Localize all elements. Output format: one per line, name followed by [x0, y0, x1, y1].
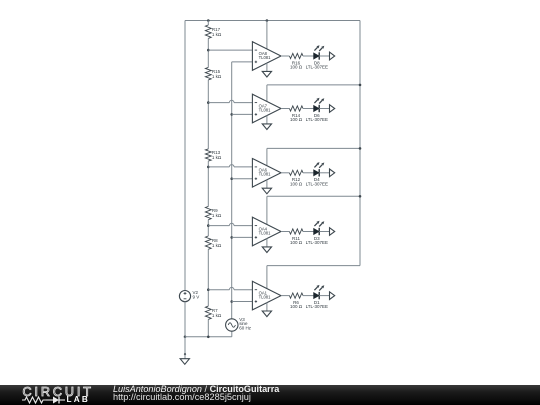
wire	[319, 295, 329, 297]
svg-text:60 Hz: 60 Hz	[239, 326, 252, 331]
wire	[207, 50, 209, 67]
svg-text:TL081: TL081	[259, 172, 272, 177]
resistor R12 100 &#937;	[289, 170, 303, 186]
wire OA4 V- pin to ground	[266, 239, 268, 247]
resistor R15 1 k&#937;	[205, 67, 222, 80]
op-amp OA6 TL081	[252, 159, 281, 188]
wire	[207, 167, 209, 207]
svg-text:LTL-307EE: LTL-307EE	[306, 181, 328, 186]
svg-text:100 Ω: 100 Ω	[290, 240, 303, 245]
wire	[303, 108, 314, 110]
node signal bus tap to OA6 non-inverting input	[230, 177, 233, 180]
resistor R13 1 k&#937;	[205, 149, 222, 161]
node divider tap to OA7 inverting input	[207, 101, 210, 104]
node top rail / OA8 supply junction	[266, 19, 269, 22]
wire OA7 V- pin to ground	[266, 116, 268, 124]
wire OA6 output	[281, 172, 289, 174]
LED D8 LTL-307EE	[306, 45, 328, 69]
resistor R8 1 k&#937;	[205, 236, 222, 249]
wire	[207, 38, 209, 50]
node divider tap to OA4 inverting input	[207, 224, 210, 227]
ground (main)	[180, 359, 189, 365]
op-amp OA4 TL081	[252, 217, 281, 246]
ground (OA6 V-)	[262, 188, 271, 194]
output terminal flag	[330, 52, 335, 60]
wire OA7 V+ supply	[267, 85, 360, 102]
node right bus / OA4 supply junction	[359, 195, 362, 198]
wire	[207, 226, 209, 236]
ground (OA4 V-)	[262, 247, 271, 253]
svg-text:9 V: 9 V	[193, 295, 200, 300]
resistor R9 1 k&#937;	[205, 206, 222, 219]
wire signal bus from V3 to non-inverting inputs	[232, 62, 253, 319]
LED D3 LTL-307EE	[306, 221, 328, 245]
svg-text:LTL-307EE: LTL-307EE	[306, 65, 328, 70]
op-amp OA1 TL081	[252, 281, 281, 310]
svg-text:100 Ω: 100 Ω	[290, 304, 303, 309]
wire	[207, 249, 209, 289]
svg-text:1 kΩ: 1 kΩ	[212, 243, 222, 248]
wire bottom ground rail	[185, 331, 232, 337]
svg-text:TL081: TL081	[259, 230, 272, 235]
wire OA1 V- pin to ground	[266, 303, 268, 311]
wire OA8 V+ supply from top rail	[266, 21, 268, 50]
svg-text:LTL-307EE: LTL-307EE	[306, 304, 328, 309]
node ground stem	[184, 353, 186, 355]
node top rail / resistor chain junction	[207, 19, 210, 22]
svg-text:100 Ω: 100 Ω	[290, 117, 303, 122]
wire OA7 inverting input (hops over signal bus)	[208, 100, 252, 102]
wire	[207, 21, 209, 26]
voltage source V2 9 V (battery)	[179, 290, 199, 302]
ground (OA8 V-)	[262, 71, 271, 77]
wire right supply bus	[359, 21, 361, 266]
wire	[207, 161, 209, 167]
wire	[207, 103, 209, 149]
wire OA8 inverting input	[208, 49, 252, 51]
svg-text:1 kΩ: 1 kΩ	[212, 155, 222, 160]
output terminal flag	[330, 292, 335, 300]
node divider tap to OA8 inverting input	[207, 49, 210, 52]
resistor R6 100 &#937;	[289, 293, 303, 309]
svg-text:1 kΩ: 1 kΩ	[212, 32, 222, 37]
output terminal flag	[330, 228, 335, 236]
wire OA6 V+ supply	[267, 148, 360, 165]
voltage source V3 sine 60 Hz	[226, 317, 252, 331]
svg-text:1 kΩ: 1 kΩ	[212, 213, 222, 218]
resistor R11 100 &#937;	[289, 229, 303, 245]
wire	[207, 290, 209, 306]
svg-text:TL081: TL081	[259, 294, 272, 299]
wire	[184, 354, 186, 359]
wire OA8 V- pin to ground	[266, 63, 268, 71]
op-amp OA7 TL081	[252, 94, 281, 123]
wire OA6 inverting input (hops over signal bus)	[208, 165, 252, 167]
wire OA4 V+ supply	[267, 196, 360, 224]
svg-text:1 kΩ: 1 kΩ	[212, 313, 222, 318]
wire left rail (V+ from battery V2)	[184, 21, 186, 291]
wire	[207, 220, 209, 226]
wire	[319, 55, 329, 57]
resistor R7 1 k&#937;	[205, 306, 222, 319]
svg-text:LTL-307EE: LTL-307EE	[306, 240, 328, 245]
wire	[207, 319, 209, 336]
node right bus / OA6 supply junction	[359, 147, 362, 150]
wire OA8 output	[281, 55, 289, 57]
LED D6 LTL-307EE	[306, 98, 328, 122]
node ground rail left junction	[184, 336, 187, 339]
node divider tap to OA1 inverting input	[207, 288, 210, 291]
wire OA6 V- pin to ground	[266, 180, 268, 188]
resistor R17 1 k&#937;	[205, 25, 222, 38]
resistor R14 100 &#937;	[289, 106, 303, 122]
wire OA1 V+ supply	[267, 266, 360, 289]
CircuitLab logo	[23, 385, 94, 399]
wire OA6 non-inverting input	[232, 178, 253, 180]
LED D1 LTL-307EE	[306, 285, 328, 309]
output terminal flag	[330, 105, 335, 113]
wire	[319, 231, 329, 233]
wire OA1 inverting input (hops over signal bus)	[208, 287, 252, 289]
output terminal flag	[330, 169, 335, 177]
wire OA4 output	[281, 231, 289, 233]
wire OA7 output	[281, 108, 289, 110]
wire	[319, 172, 329, 174]
svg-text:1 kΩ: 1 kΩ	[212, 74, 222, 79]
wire OA1 output	[281, 295, 289, 297]
node signal bus tap to OA1 non-inverting input	[230, 300, 233, 303]
wire OA4 non-inverting input	[232, 236, 253, 238]
wire	[303, 55, 314, 57]
wire OA7 non-inverting input	[232, 113, 253, 115]
wire	[207, 80, 209, 103]
svg-text:TL081: TL081	[259, 107, 272, 112]
node signal bus tap to OA7 non-inverting input	[230, 113, 233, 116]
node R7 bottom junction	[207, 336, 210, 339]
ground (OA1 V-)	[262, 311, 271, 317]
node signal bus tap to OA4 non-inverting input	[230, 236, 233, 239]
wire	[319, 108, 329, 110]
node right bus / OA7 supply junction	[359, 84, 362, 87]
svg-text:LTL-307EE: LTL-307EE	[306, 117, 328, 122]
wire to main ground	[184, 337, 186, 354]
node divider tap to OA6 inverting input	[207, 166, 210, 169]
wire OA4 inverting input (hops over signal bus)	[208, 223, 252, 225]
wire	[303, 172, 314, 174]
wire top supply rail	[185, 20, 360, 22]
wire V2 negative to ground rail	[184, 302, 186, 337]
ground (OA7 V-)	[262, 124, 271, 130]
svg-text:100 Ω: 100 Ω	[290, 65, 303, 70]
svg-text:TL081: TL081	[259, 55, 272, 60]
LED D4 LTL-307EE	[306, 162, 328, 186]
wire	[303, 295, 314, 297]
svg-text:100 Ω: 100 Ω	[290, 181, 303, 186]
op-amp OA8 TL081	[252, 42, 281, 71]
wire OA1 non-inverting input	[232, 301, 253, 303]
resistor R16 100 &#937;	[289, 53, 303, 69]
wire	[303, 231, 314, 233]
